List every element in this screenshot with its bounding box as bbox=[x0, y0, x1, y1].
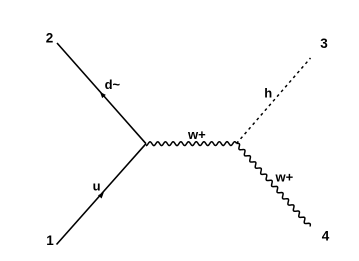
svg-text:d~: d~ bbox=[105, 77, 121, 92]
incoming antiquark d~ line (from label 2 to left vertex) bbox=[57, 43, 146, 144]
svg-text:2: 2 bbox=[46, 31, 54, 46]
outgoing W+ wavy line (right vertex to label 4) bbox=[237, 143, 311, 226]
arrowhead on d~ line (points up-left) bbox=[100, 92, 106, 98]
svg-text:w+: w+ bbox=[275, 170, 294, 185]
arrowhead on u line (points up-right) bbox=[98, 192, 104, 198]
svg-text:3: 3 bbox=[320, 36, 328, 51]
W+ propagator wavy line (left vertex to right vertex) bbox=[146, 142, 237, 146]
svg-text:u: u bbox=[93, 178, 101, 193]
incoming quark u line (from label 1 to left vertex) bbox=[57, 144, 147, 245]
svg-text:4: 4 bbox=[322, 228, 330, 243]
Higgs dashed line (right vertex to label 3) bbox=[237, 58, 311, 144]
svg-text:h: h bbox=[264, 86, 272, 101]
svg-text:w+: w+ bbox=[187, 127, 206, 142]
svg-text:1: 1 bbox=[46, 233, 54, 248]
